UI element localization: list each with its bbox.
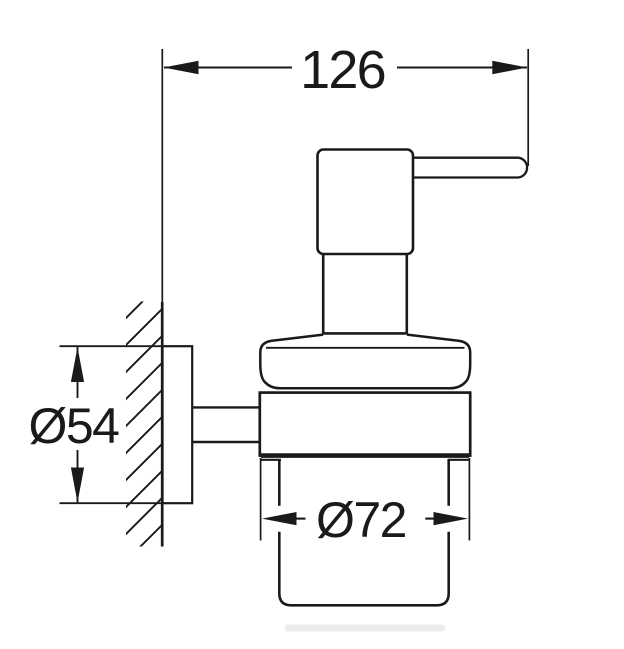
svg-text:126: 126 — [300, 40, 385, 100]
svg-text:Ø72: Ø72 — [316, 492, 406, 548]
svg-text:Ø54: Ø54 — [28, 398, 119, 454]
